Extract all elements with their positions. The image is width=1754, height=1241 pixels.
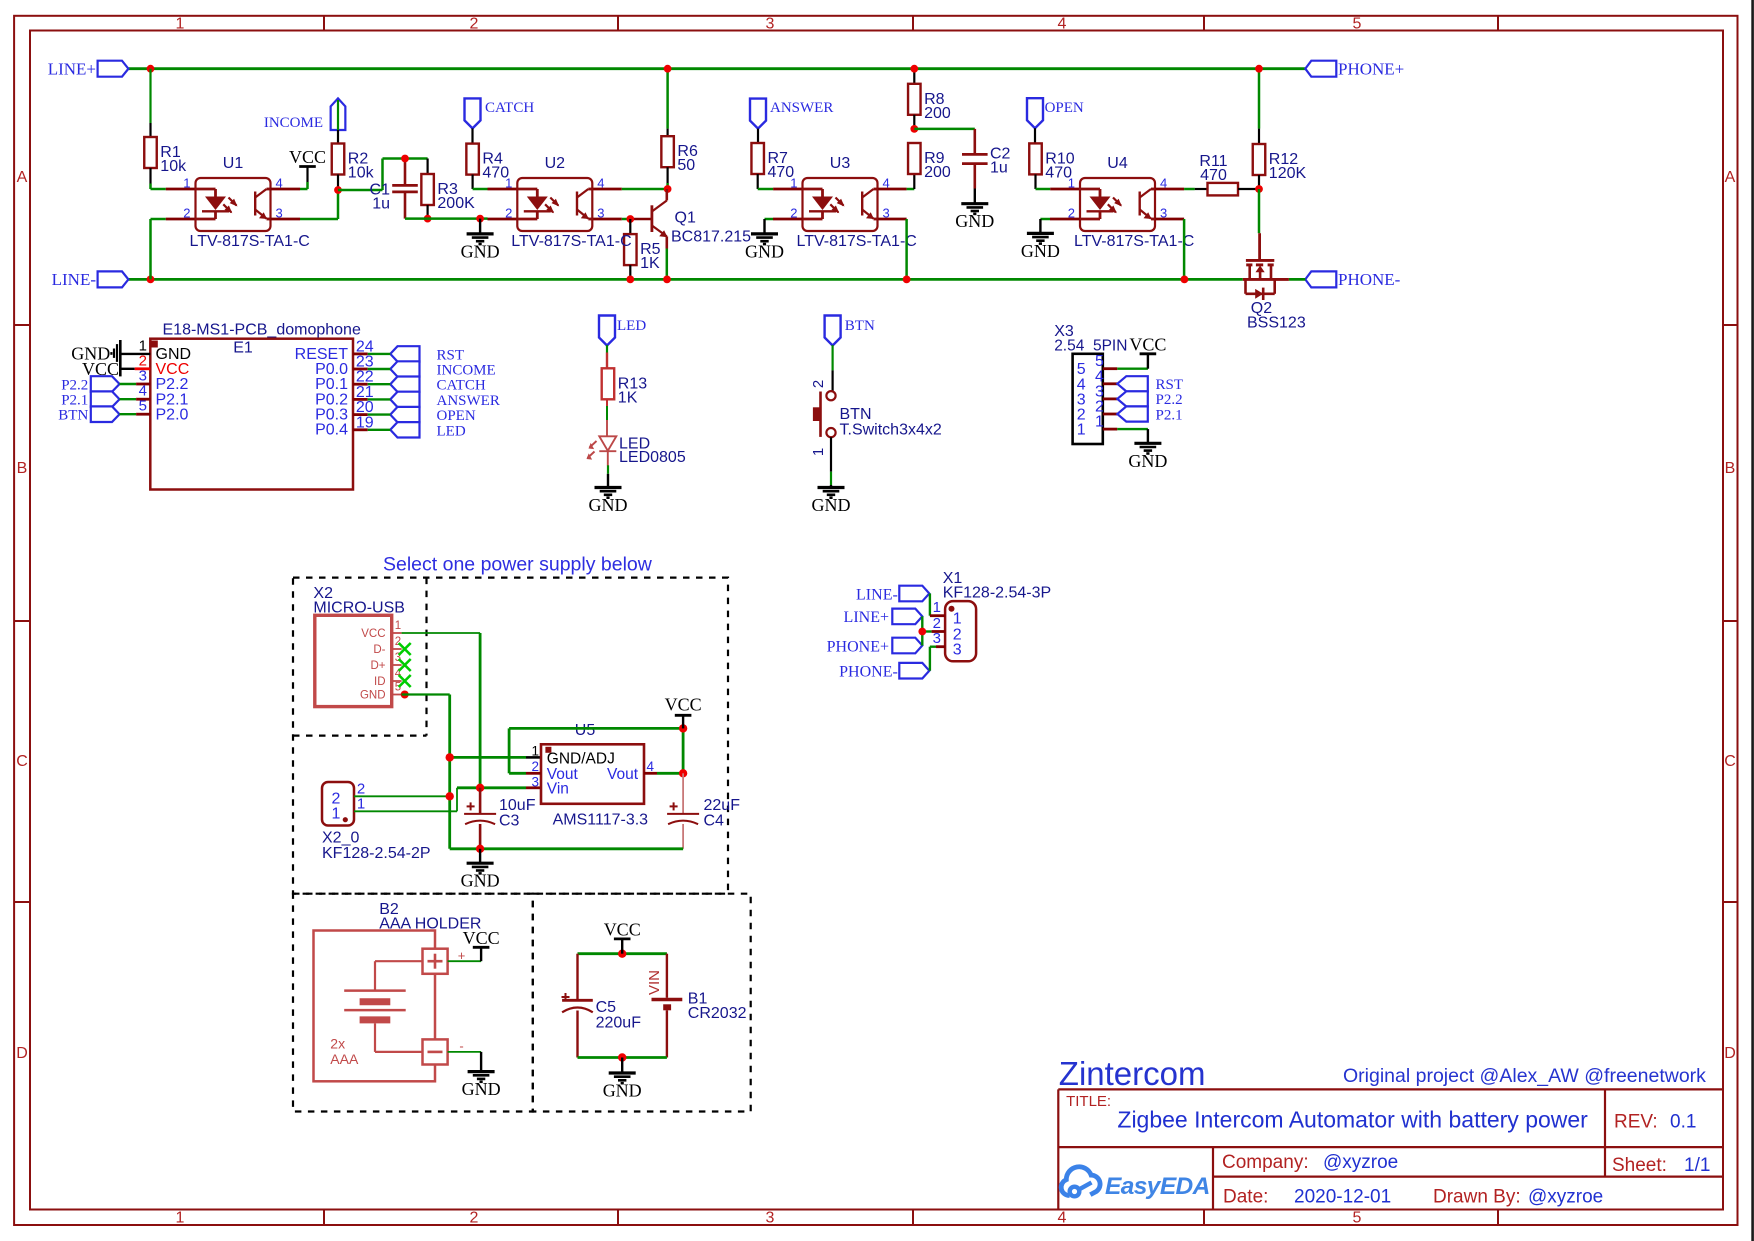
svg-text:LINE+: LINE+	[844, 609, 889, 626]
svg-text:U4: U4	[1107, 155, 1128, 172]
wire OPEN to R10	[1034, 128, 1036, 143]
title block table	[1058, 1089, 1723, 1209]
ground GND under C2	[955, 189, 994, 232]
resistor R8 200	[908, 84, 951, 122]
connector X2 MICRO-USB	[313, 585, 405, 707]
node GND junction near U2	[476, 215, 484, 223]
ground GND under BTN	[812, 488, 851, 516]
svg-text:VCC: VCC	[463, 928, 500, 948]
svg-text:1: 1	[1068, 176, 1075, 191]
svg-text:C5: C5	[596, 999, 617, 1016]
svg-text:Company:: Company:	[1222, 1152, 1309, 1173]
resistor R1 10k	[144, 137, 187, 175]
svg-text:120K: 120K	[1269, 165, 1307, 182]
wire E1 pin21	[353, 398, 390, 401]
wire LINE+ to R8	[913, 69, 915, 84]
resistor R12 120K	[1253, 144, 1307, 182]
svg-text:LTV-817S-TA1-C: LTV-817S-TA1-C	[190, 233, 310, 250]
svg-text:22uF: 22uF	[704, 797, 741, 814]
wire LINE+/PHONE+ to X1 pin2	[922, 616, 945, 645]
wire U5 pin4 Vout to VCC	[644, 728, 683, 773]
svg-text:PHONE-: PHONE-	[839, 664, 898, 681]
node U2.4/R6/Q1 junction	[664, 185, 672, 193]
svg-text:P2.2: P2.2	[61, 378, 88, 394]
svg-text:1: 1	[395, 620, 401, 632]
svg-text:2x: 2x	[330, 1036, 345, 1052]
svg-text:10k: 10k	[348, 165, 375, 182]
svg-text:0.1: 0.1	[1670, 1112, 1696, 1133]
flag P2.1 at E1 pin4	[61, 391, 119, 408]
svg-text:VCC: VCC	[604, 919, 641, 939]
svg-text:E1: E1	[233, 340, 253, 357]
dashed box battery AAA option	[293, 894, 533, 1112]
svg-text:3: 3	[531, 775, 539, 790]
svg-text:LTV-817S-TA1-C: LTV-817S-TA1-C	[797, 233, 917, 250]
svg-text:GND: GND	[461, 871, 500, 891]
wire R12 to node	[1258, 175, 1260, 189]
wire U4 pin3 to LINE-	[1155, 219, 1184, 279]
pin 3 X3	[1077, 383, 1118, 408]
node LINE+ junction	[147, 65, 155, 73]
svg-text:1K: 1K	[618, 389, 638, 406]
wire CATCH to R4	[471, 128, 473, 143]
ground GND at E1 pin1 (rotated)	[71, 340, 120, 376]
svg-text:GND: GND	[745, 241, 784, 261]
wire LINE- bus	[128, 278, 1242, 281]
wire E1 pin23	[353, 368, 390, 371]
node GND bottom junction	[618, 1053, 626, 1061]
resistor R7 470	[751, 143, 794, 181]
flag RST at E1 pin24	[390, 346, 464, 363]
svg-text:X2_0: X2_0	[322, 830, 359, 847]
wire node to Q2 gate	[1258, 189, 1261, 259]
transistor Q1 BC817.215	[652, 189, 751, 249]
svg-text:INCOME: INCOME	[437, 363, 496, 379]
svg-text:200: 200	[924, 164, 951, 181]
capacitor C4 22uF	[667, 773, 740, 849]
flag BTN	[825, 316, 875, 346]
svg-text:GND: GND	[462, 1079, 501, 1099]
svg-text:Q1: Q1	[675, 210, 696, 227]
wire U2 pin3 to Q1 base	[592, 218, 652, 221]
flag PHONE- (right)	[1305, 270, 1400, 289]
wire X3 pin1 to ground	[1117, 429, 1148, 443]
svg-text:1: 1	[953, 611, 962, 628]
svg-text:D+: D+	[370, 660, 385, 672]
svg-text:2: 2	[505, 206, 512, 221]
svg-text:VIN: VIN	[646, 970, 663, 995]
svg-text:10k: 10k	[160, 158, 187, 175]
node GND/U5 junction	[446, 753, 454, 761]
wire PHONE- to X1 pin3	[930, 647, 945, 671]
svg-text:2.54_5PIN: 2.54_5PIN	[1054, 338, 1127, 355]
svg-text:19: 19	[356, 414, 374, 431]
wire C5/B1 bottom bus	[578, 1056, 667, 1059]
flag PHONE+ (top right)	[1305, 60, 1404, 79]
power VCC output	[665, 695, 702, 729]
wire C5/B1 top bus	[578, 952, 667, 955]
svg-text:1: 1	[1077, 422, 1086, 439]
wire X2_0 pin1 to Vin net	[354, 788, 457, 812]
wire R4 to U2 pin1	[473, 175, 518, 189]
dashed box micro-usb option	[425, 578, 427, 736]
node C1 top junction	[401, 155, 409, 163]
svg-text:OPEN: OPEN	[437, 408, 476, 424]
node R2/U1.3 junction	[334, 186, 342, 194]
svg-text:KF128-2.54-3P: KF128-2.54-3P	[943, 584, 1052, 601]
svg-text:PHONE-: PHONE-	[1338, 270, 1401, 289]
ground GND under LED	[589, 488, 628, 516]
svg-text:GND: GND	[955, 211, 994, 231]
svg-text:T.Switch3x4x2: T.Switch3x4x2	[840, 422, 942, 439]
battery B1 CR2032	[646, 954, 747, 1058]
svg-text:BSS123: BSS123	[1247, 315, 1306, 332]
svg-text:GND: GND	[1128, 451, 1167, 471]
resistor R9 200	[908, 143, 951, 181]
wire R13 to LED	[606, 399, 608, 437]
wire INCOME to R2	[337, 130, 339, 144]
wire X2_0 pin2 to GND net	[354, 795, 450, 797]
wire LINE- to U1 pin2	[151, 219, 196, 279]
resistor R13 1K	[602, 368, 648, 406]
svg-text:CR2032: CR2032	[688, 1005, 747, 1022]
svg-text:A: A	[17, 169, 28, 186]
wire U2 pin4 to node	[592, 188, 667, 191]
node Vin/C3 junction	[476, 784, 484, 792]
node VCC top junction	[618, 950, 626, 958]
svg-text:Date:: Date:	[1223, 1187, 1268, 1208]
power VCC at C5/B1	[604, 919, 641, 953]
svg-text:CATCH: CATCH	[437, 378, 486, 394]
wire R2 bottom to node	[337, 175, 339, 191]
ground GND at X3	[1128, 443, 1167, 471]
wire U3 pin2 to ground	[765, 219, 803, 234]
flag LED	[599, 316, 646, 346]
wire U1 pin3 to node	[271, 190, 339, 219]
svg-text:BTN: BTN	[845, 318, 875, 334]
wire U4 pin4 to R11	[1155, 188, 1207, 191]
wire E1 pin20	[353, 413, 390, 416]
svg-text:3: 3	[953, 642, 962, 659]
svg-text:OPEN: OPEN	[1045, 100, 1084, 116]
svg-text:B: B	[1725, 460, 1736, 477]
svg-text:4: 4	[1058, 16, 1067, 33]
svg-text:GND: GND	[589, 495, 628, 515]
wire node to C2	[914, 128, 975, 131]
svg-text:VCC: VCC	[1129, 334, 1166, 354]
svg-text:D-: D-	[373, 644, 385, 656]
node U4.3/LINE- junction	[1181, 276, 1189, 284]
wire E1 pin19	[353, 428, 390, 431]
svg-text:1: 1	[176, 16, 185, 33]
svg-text:P2.1: P2.1	[1156, 407, 1183, 423]
wire R1 to U1 pin1	[151, 168, 196, 189]
flag P2.2 at E1 pin3	[61, 376, 119, 393]
svg-text:1: 1	[357, 795, 365, 812]
svg-text:LINE-: LINE-	[856, 586, 898, 603]
node ground bus / C3	[476, 845, 484, 853]
flag OPEN	[1027, 98, 1084, 128]
svg-text:BTN: BTN	[840, 406, 872, 423]
svg-text:U2: U2	[545, 155, 566, 172]
svg-text:LED: LED	[437, 423, 466, 439]
wire switch to ground	[830, 437, 832, 487]
svg-text:PHONE+: PHONE+	[1338, 60, 1404, 79]
svg-text:EasyEDA: EasyEDA	[1105, 1173, 1210, 1200]
svg-text:LINE+: LINE+	[48, 60, 96, 79]
diode LED LED0805	[587, 436, 686, 467]
node U2.3/R5 junction	[626, 215, 634, 223]
svg-text:P2.0: P2.0	[156, 406, 189, 423]
svg-text:2: 2	[470, 16, 479, 33]
flag PHONE+ at X1	[827, 638, 923, 656]
svg-text:GND: GND	[360, 690, 386, 702]
node Vout/C4 junction	[679, 769, 687, 777]
svg-text:KF128-2.54-2P: KF128-2.54-2P	[322, 845, 431, 862]
node PHONE+/R12 junction	[1255, 65, 1263, 73]
svg-text:10uF: 10uF	[499, 797, 536, 814]
svg-text:LTV-817S-TA1-C: LTV-817S-TA1-C	[1074, 233, 1194, 250]
node R11/R12/Q2 gate junction	[1255, 185, 1263, 193]
transistor Q2 BSS123 (MOSFET)	[1243, 260, 1306, 331]
wire E1 pin1	[120, 353, 150, 355]
pin 5 X3	[1077, 353, 1118, 378]
flag P2.2 at X3	[1117, 391, 1182, 408]
svg-text:2: 2	[183, 206, 190, 221]
node VCC loop junction	[679, 724, 687, 732]
wire LINE+ to R1	[149, 69, 151, 137]
resistor R5 1K	[624, 219, 661, 279]
resistor R2 10k	[332, 144, 375, 182]
capacitor C1 1u	[370, 159, 418, 219]
resistor R10 470	[1029, 143, 1075, 181]
window edge line	[1751, 0, 1754, 1241]
optocoupler U1 LTV-817S-TA1-C	[183, 155, 310, 250]
svg-text:200K: 200K	[437, 195, 475, 212]
pin 4 X3	[1077, 368, 1118, 393]
wire E1 pin24	[353, 352, 390, 355]
svg-text:C4: C4	[704, 813, 725, 830]
capacitor C2 1u	[962, 129, 1011, 189]
wire R11 to R12/Q2 node	[1238, 188, 1259, 190]
svg-text:U5: U5	[575, 722, 596, 739]
ground GND at B2	[462, 1072, 501, 1100]
svg-text:U3: U3	[830, 155, 851, 172]
svg-text:REV:: REV:	[1614, 1112, 1658, 1133]
svg-text:1: 1	[933, 599, 941, 616]
wire PHONE+ to R12	[1258, 69, 1261, 144]
switch BTN T.Switch3x4x2	[813, 391, 942, 438]
svg-text:220uF: 220uF	[596, 1015, 642, 1032]
logo EasyEDA	[1061, 1167, 1210, 1200]
svg-text:1: 1	[176, 1210, 185, 1227]
svg-text:5: 5	[1353, 1210, 1362, 1227]
no-connect X on X2 pins 2-4	[399, 643, 411, 687]
svg-text:2: 2	[531, 759, 539, 774]
wire U3 pin3 to LINE-	[878, 219, 906, 279]
svg-text:E18-MS1-PCB_domophone: E18-MS1-PCB_domophone	[163, 322, 361, 339]
svg-text:BC817.215: BC817.215	[671, 229, 751, 246]
svg-text:Zintercom: Zintercom	[1059, 1055, 1206, 1092]
pin 1 X3	[1077, 414, 1118, 439]
svg-text:1/1: 1/1	[1684, 1155, 1710, 1176]
svg-text:1: 1	[1095, 414, 1104, 431]
svg-text:1: 1	[332, 806, 341, 823]
wire E1 pin2	[120, 368, 150, 370]
svg-text:C: C	[1724, 753, 1736, 770]
ground GND power section	[461, 849, 500, 891]
svg-text:P2.1: P2.1	[61, 393, 88, 409]
wire X2 GND down	[402, 695, 450, 849]
svg-text:3: 3	[766, 16, 775, 33]
wire LED flag to R13	[606, 345, 608, 368]
svg-text:4: 4	[647, 759, 655, 774]
wire E1 pin22	[353, 383, 390, 386]
power VCC at U1 pin4	[271, 147, 327, 189]
wire BTN flag to switch	[831, 345, 833, 391]
wire U3 pin4 to R9	[878, 174, 914, 189]
svg-text:LED0805: LED0805	[619, 449, 686, 466]
ground GND at C5/B1	[603, 1058, 642, 1101]
wire LED to ground	[607, 465, 609, 487]
svg-text:P0.4: P0.4	[315, 421, 348, 438]
svg-text:P2.2: P2.2	[1156, 392, 1183, 408]
wire B2 minus to ground	[448, 1039, 482, 1072]
svg-text:GND: GND	[461, 241, 500, 261]
battery B2 AAA HOLDER	[314, 901, 482, 1081]
power VCC at X3	[1129, 334, 1166, 354]
wire R10 to U4 pin1	[1036, 174, 1081, 189]
node LINE- junction	[147, 276, 155, 284]
svg-text:3: 3	[933, 630, 941, 647]
svg-text:INCOME: INCOME	[264, 115, 323, 131]
svg-text:470: 470	[1200, 167, 1227, 184]
flag LED at E1 pin19	[390, 422, 466, 439]
ground GND at U3 pin2	[745, 234, 784, 262]
resistor R3 200K	[421, 159, 475, 219]
svg-text:D: D	[1724, 1045, 1736, 1062]
svg-text:1: 1	[505, 176, 512, 191]
wire LINE+ to R6	[666, 69, 669, 137]
svg-text:1: 1	[531, 744, 539, 759]
svg-text:AAA: AAA	[330, 1051, 359, 1067]
wire power ground bus	[450, 847, 683, 850]
wire E1 pin3	[120, 383, 151, 385]
flag RST at X3	[1117, 376, 1183, 393]
svg-text:4: 4	[597, 176, 604, 191]
ground GND near U2 pin2	[461, 219, 500, 262]
svg-text:VCC: VCC	[665, 695, 702, 715]
node LINE+/R6 junction	[664, 65, 672, 73]
svg-text:Drawn By:: Drawn By:	[1433, 1187, 1521, 1208]
svg-text:PHONE+: PHONE+	[827, 638, 889, 655]
svg-text:2: 2	[470, 1210, 479, 1227]
svg-text:A: A	[1725, 169, 1736, 186]
wire U5 pin2 Vout loop to VCC	[509, 728, 683, 773]
flag LINE- at X1	[856, 586, 929, 604]
svg-text:U1: U1	[223, 155, 244, 172]
svg-text:Original project @Alex_AW @fre: Original project @Alex_AW @freenetwork	[1343, 1065, 1706, 1087]
optocoupler U4 LTV-817S-TA1-C	[1068, 155, 1195, 250]
wire ANSWER to R7	[757, 129, 759, 143]
svg-text:2: 2	[810, 380, 827, 388]
flag BTN at E1 pin5	[58, 406, 119, 423]
svg-text:50: 50	[677, 157, 695, 174]
svg-text:D: D	[16, 1045, 28, 1062]
pin 2 X3	[1077, 399, 1118, 424]
node R5/LINE- junction	[626, 276, 634, 284]
svg-text:VCC: VCC	[361, 628, 385, 640]
flag LINE- (left)	[52, 270, 129, 289]
svg-text:ID: ID	[374, 676, 386, 688]
regulator U5 AMS1117-3.3	[531, 722, 654, 829]
wire R8 to R9 node	[913, 115, 915, 129]
svg-text:BTN: BTN	[58, 408, 88, 424]
wire GND to U5 GND/ADJ	[450, 756, 541, 759]
resistor R4 470	[466, 144, 509, 182]
svg-text:4: 4	[1058, 1210, 1067, 1227]
svg-text:CATCH: CATCH	[485, 100, 534, 116]
svg-text:RST: RST	[437, 347, 465, 363]
svg-text:1u: 1u	[372, 196, 390, 213]
dashed box power supply select	[293, 578, 728, 894]
flag PHONE- at X1	[839, 663, 929, 681]
svg-text:1: 1	[183, 176, 190, 191]
svg-text:5: 5	[139, 398, 147, 415]
flag ANSWER at E1 pin21	[390, 392, 500, 409]
svg-text:LTV-817S-TA1-C: LTV-817S-TA1-C	[511, 233, 631, 250]
connector X3 2.54_5PIN	[1054, 323, 1127, 444]
svg-text:5: 5	[395, 682, 401, 694]
power VCC at B2	[463, 928, 500, 948]
node U3.3/LINE- junction	[903, 276, 911, 284]
flag CATCH	[465, 98, 535, 128]
svg-text:@xyzroe: @xyzroe	[1528, 1187, 1603, 1208]
wire Vin node to U5 pin3	[457, 786, 541, 789]
wire LINE+ top bus	[128, 67, 1305, 70]
node LINE+/R8 junction	[910, 65, 918, 73]
flag ANSWER	[750, 99, 833, 129]
ground GND at U4 pin2	[1021, 233, 1060, 261]
optocoupler U2 LTV-817S-TA1-C	[505, 155, 632, 250]
svg-text:@xyzroe: @xyzroe	[1323, 1152, 1398, 1173]
svg-text:GND: GND	[812, 495, 851, 515]
wire node to C1/R3 top	[338, 159, 428, 191]
wire X3 pin5 to VCC	[1117, 354, 1148, 369]
svg-text:TITLE:: TITLE:	[1066, 1093, 1111, 1110]
capacitor C3 10uF	[464, 788, 536, 849]
wire U4 pin2 to ground	[1040, 219, 1080, 233]
flag CATCH at E1 pin22	[390, 377, 486, 394]
flag INCOME (net flag up)	[264, 98, 346, 131]
optocoupler U3 LTV-817S-TA1-C	[790, 155, 917, 250]
wire Q2 to PHONE-	[1289, 278, 1305, 281]
wire C1/R3 bottom to U2 pin2	[405, 217, 517, 220]
wire E1 pin5	[120, 413, 151, 415]
wire R7 to U3 pin1	[758, 174, 803, 189]
svg-text:5: 5	[1353, 16, 1362, 33]
svg-text:Zigbee Intercom Automator with: Zigbee Intercom Automator with battery p…	[1117, 1107, 1588, 1133]
wire X2 VCC to Vin	[402, 633, 481, 788]
flag P2.1 at X3	[1117, 406, 1182, 423]
svg-text:GND: GND	[603, 1081, 642, 1101]
wire B2 plus to VCC	[448, 947, 482, 963]
node X2 GND pin	[401, 691, 409, 699]
node Q1 emitter/LINE- junction	[663, 276, 671, 284]
node LINE+ X1 junction	[918, 628, 926, 636]
svg-text:Vout: Vout	[607, 766, 639, 783]
svg-text:1K: 1K	[640, 255, 660, 272]
